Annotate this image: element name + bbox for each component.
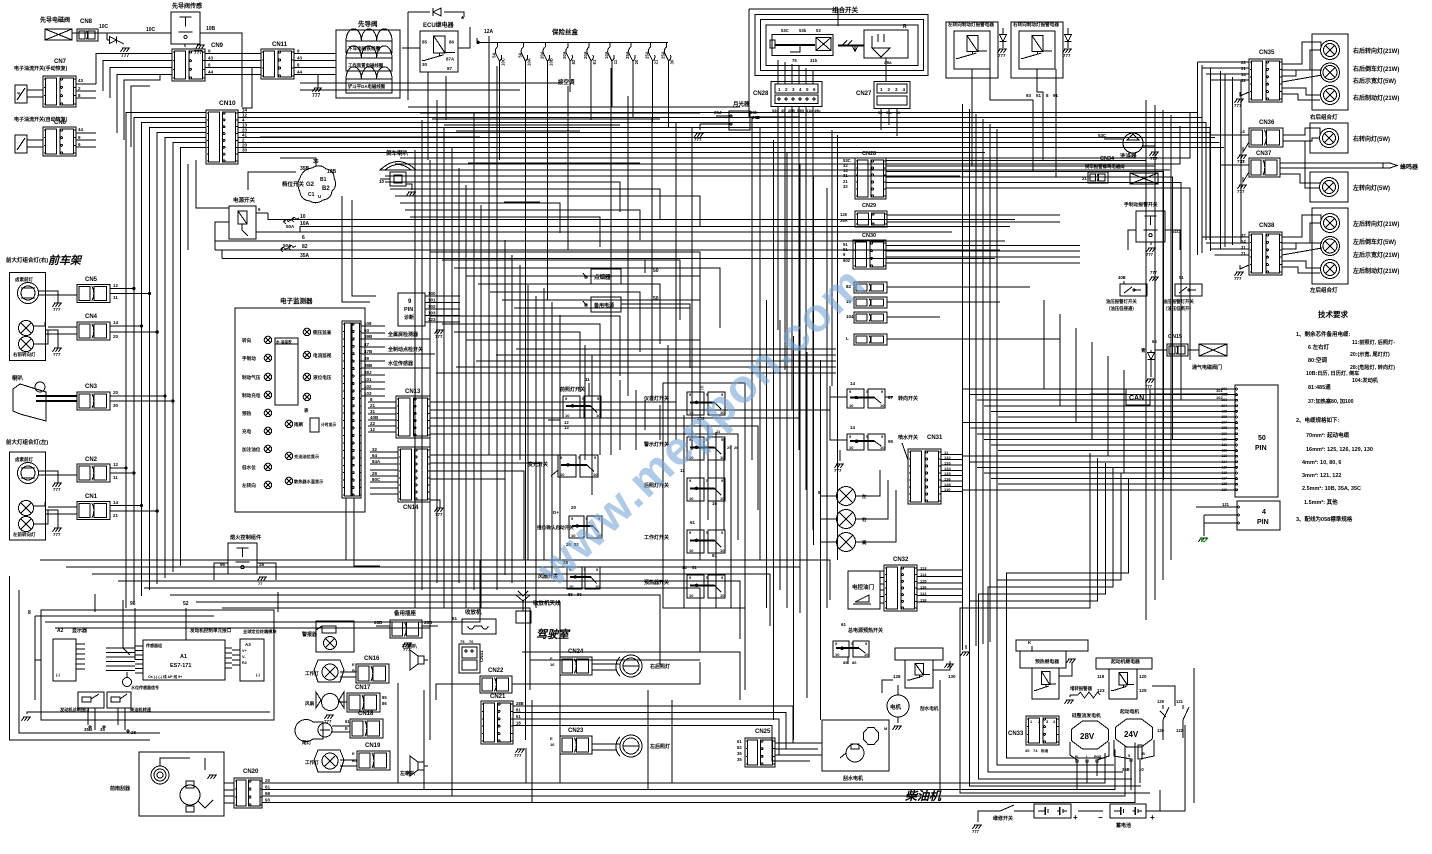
wire trunk v bbox=[584, 345, 586, 460]
kill control box bbox=[220, 533, 265, 574]
svg-text:82: 82 bbox=[737, 745, 742, 750]
connector CN30 bbox=[843, 233, 886, 269]
ground bbox=[53, 528, 63, 537]
svg-text:10: 10 bbox=[864, 652, 869, 657]
label headlamp right bbox=[6, 256, 48, 264]
svg-text:14: 14 bbox=[850, 381, 856, 386]
svg-text:C1: C1 bbox=[308, 192, 315, 198]
ground bbox=[403, 643, 413, 652]
label front frame bbox=[48, 254, 83, 267]
ECU relay bbox=[420, 21, 458, 72]
fuse 25A 21 bbox=[645, 42, 659, 66]
svg-text:前大灯组合灯(左): 前大灯组合灯(左) bbox=[6, 438, 48, 446]
wire trunk v bbox=[567, 92, 569, 250]
svg-text:8: 8 bbox=[28, 610, 31, 616]
A1 ECU box bbox=[135, 627, 232, 680]
svg-text:11: 11 bbox=[113, 475, 118, 480]
svg-text:35B: 35B bbox=[84, 727, 93, 732]
preheat switch bbox=[644, 565, 725, 598]
svg-text:左后转向灯(21W): 左后转向灯(21W) bbox=[1352, 220, 1399, 228]
wire fan 50pin bbox=[977, 399, 1228, 401]
wire fan 50pin bbox=[998, 450, 1228, 452]
wires CN36 bbox=[1283, 128, 1320, 141]
svg-text:10: 10 bbox=[849, 403, 854, 408]
svg-text:11:前照灯, 后照灯-: 11:前照灯, 后照灯- bbox=[1352, 338, 1395, 346]
svg-text:20: 20 bbox=[113, 390, 119, 395]
svg-text:75: 75 bbox=[460, 639, 465, 644]
wire h stair bbox=[420, 112, 700, 114]
wire vdrop bbox=[423, 690, 425, 790]
wire CN13 22 bbox=[368, 421, 396, 426]
svg-text:84A: 84A bbox=[372, 459, 381, 464]
connector CN41 bbox=[459, 639, 484, 673]
svg-text:CN4: CN4 bbox=[85, 314, 98, 320]
svg-text:11: 11 bbox=[613, 59, 618, 64]
parking brake switch bbox=[1124, 201, 1181, 250]
svg-text:16: 16 bbox=[550, 662, 555, 667]
svg-text:（油压低断开）: （油压低断开） bbox=[1163, 305, 1194, 312]
connector CN20 bbox=[234, 769, 262, 808]
svg-text:53b: 53b bbox=[799, 28, 807, 33]
ground bbox=[1234, 265, 1249, 281]
wire bbox=[886, 256, 1080, 258]
svg-text:%: % bbox=[17, 91, 21, 96]
svg-text:CN10: CN10 bbox=[219, 100, 236, 107]
service switch bbox=[972, 805, 1023, 834]
right horn bbox=[401, 643, 428, 670]
wire CN37 pin bbox=[1221, 164, 1250, 166]
ground bbox=[258, 577, 268, 586]
wire bbox=[248, 172, 296, 190]
rear cluster mid1 box bbox=[1310, 123, 1348, 153]
svg-text:108: 108 bbox=[364, 321, 372, 326]
wire trunk v bbox=[644, 400, 646, 430]
svg-text:工作灯: 工作灯 bbox=[305, 670, 319, 677]
svg-text:47: 47 bbox=[364, 342, 370, 347]
svg-text:93: 93 bbox=[364, 328, 370, 333]
label headlamp left bbox=[6, 438, 48, 446]
9PIN connector bbox=[398, 293, 425, 326]
wire tap 39 bbox=[361, 356, 385, 361]
wire trunk v bbox=[659, 405, 661, 440]
wire riser CN6 bbox=[117, 75, 172, 148]
connector CN25 bbox=[737, 729, 775, 767]
wire CN5-11 bbox=[110, 292, 150, 300]
svg-text:82: 82 bbox=[302, 244, 308, 250]
wire vdrop bbox=[531, 700, 533, 803]
ground bbox=[312, 88, 322, 99]
svg-text:20: 20 bbox=[265, 778, 271, 783]
wire bbox=[165, 138, 206, 579]
svg-text:起动电机: 起动电机 bbox=[1119, 708, 1139, 715]
svg-text:119: 119 bbox=[1097, 674, 1105, 679]
svg-text:喇叭: 喇叭 bbox=[12, 374, 24, 382]
wires time relay bbox=[700, 116, 800, 130]
wire h stair2 bbox=[385, 182, 620, 212]
wire vdrop bbox=[671, 700, 673, 783]
wire trunk v bbox=[473, 112, 475, 590]
wire CN14 84A bbox=[370, 459, 398, 464]
wire trunk v bbox=[551, 302, 553, 575]
svg-text:10: 10 bbox=[560, 472, 565, 477]
coil: bucket bbox=[346, 67, 392, 93]
svg-text:CAN: CAN bbox=[1129, 395, 1144, 402]
stall alarm bbox=[1065, 685, 1100, 704]
svg-text:52: 52 bbox=[183, 601, 189, 607]
wire corridor bbox=[1007, 478, 1129, 758]
wire term drop bbox=[1130, 761, 1132, 790]
svg-text:E: E bbox=[345, 726, 348, 731]
svg-text:40B: 40B bbox=[1118, 275, 1126, 280]
svg-text:6 左右灯: 6 左右灯 bbox=[1308, 343, 1330, 351]
svg-text:75: 75 bbox=[792, 58, 797, 63]
wire bbox=[173, 143, 206, 573]
wire 8 bbox=[28, 610, 35, 700]
wire bbox=[214, 563, 276, 580]
wire bbox=[280, 158, 316, 166]
svg-text:CN21: CN21 bbox=[490, 694, 506, 700]
wire tap 103 bbox=[361, 391, 385, 396]
svg-text:86: 86 bbox=[852, 660, 857, 665]
svg-text:125: 125 bbox=[1157, 699, 1165, 704]
svg-text:112: 112 bbox=[920, 591, 927, 596]
svg-text:123: 123 bbox=[428, 317, 436, 322]
svg-text:30: 30 bbox=[242, 148, 248, 153]
wire h sw8 bbox=[430, 471, 524, 560]
connector CN29 bbox=[840, 203, 887, 227]
svg-text:右后组合灯: 右后组合灯 bbox=[1310, 113, 1338, 121]
svg-text:前照灯开关: 前照灯开关 bbox=[560, 386, 585, 393]
wire fan 50pin bbox=[963, 455, 1228, 457]
svg-text:油压报警灯开关: 油压报警灯开关 bbox=[1106, 298, 1137, 305]
wires A1 A3 bbox=[232, 650, 240, 665]
turn switch bbox=[847, 381, 918, 408]
svg-text:诊断: 诊断 bbox=[404, 314, 414, 321]
halogen lamp bbox=[15, 276, 39, 304]
work lamp 1 bbox=[305, 660, 358, 682]
svg-text:777: 777 bbox=[53, 352, 61, 357]
wiper motor assy bbox=[822, 720, 889, 782]
wire bbox=[887, 338, 1060, 340]
svg-text:警报器: 警报器 bbox=[301, 631, 318, 638]
svg-text:11: 11 bbox=[585, 377, 590, 382]
fuse 10A 11 bbox=[604, 42, 618, 66]
svg-text:3mm²: 121, 122: 3mm²: 121, 122 bbox=[1302, 472, 1341, 479]
sensor label 1 bbox=[385, 331, 430, 339]
svg-text:倒车喇叭: 倒车喇叭 bbox=[385, 149, 409, 157]
wire right col bbox=[1201, 65, 1203, 253]
wire trunk v bbox=[610, 68, 612, 455]
wire CN3-30 bbox=[110, 400, 174, 408]
connector CN8 bbox=[77, 19, 109, 41]
svg-text:777: 777 bbox=[53, 487, 61, 492]
wire tap 108 bbox=[361, 321, 385, 326]
svg-text:电子监测器: 电子监测器 bbox=[280, 296, 313, 305]
rear light switch bbox=[644, 468, 725, 506]
svg-text:CN31: CN31 bbox=[927, 435, 943, 441]
svg-text:预热: 预热 bbox=[242, 410, 252, 417]
svg-text:102: 102 bbox=[364, 384, 372, 389]
wire h stairL bbox=[66, 567, 800, 613]
wires combo to CN28 bbox=[778, 60, 813, 84]
aux power bbox=[583, 296, 690, 312]
inline connector 10 bbox=[846, 297, 887, 308]
wire fan 50pin bbox=[970, 427, 1228, 429]
wire h mid bbox=[496, 354, 836, 356]
oil pressure switch 2 bbox=[1163, 275, 1202, 312]
svg-text:CN35: CN35 bbox=[1259, 50, 1275, 56]
combo nested loops bbox=[749, 9, 928, 118]
wire CN31 110 bbox=[941, 487, 963, 492]
wire bbox=[830, 386, 908, 461]
svg-text:左后组合灯: 左后组合灯 bbox=[1309, 286, 1338, 294]
wire right col bbox=[1209, 68, 1211, 251]
svg-text:18: 18 bbox=[516, 721, 521, 726]
wire CN2-11 bbox=[110, 472, 135, 480]
wire term drop bbox=[1076, 762, 1078, 790]
svg-text:CN1: CN1 bbox=[85, 494, 98, 500]
wire CN32 113 bbox=[917, 566, 962, 571]
svg-text:电子油流开关(手动恢复): 电子油流开关(手动恢复) bbox=[14, 65, 68, 72]
wire CN14 32 bbox=[370, 447, 398, 452]
oil pressure switch 1 bbox=[1106, 275, 1147, 312]
wire bbox=[985, 128, 1210, 241]
svg-text:126: 126 bbox=[1157, 728, 1165, 733]
headlamp housing left bbox=[9, 452, 45, 540]
wire h sw3 bbox=[430, 418, 800, 434]
connector CN4 bbox=[77, 314, 110, 340]
svg-text:43: 43 bbox=[297, 56, 303, 61]
svg-text:93: 93 bbox=[1026, 93, 1032, 98]
wire 4pin bbox=[1196, 507, 1230, 536]
wire CN32 118 bbox=[917, 598, 962, 603]
svg-text:5A: 5A bbox=[517, 52, 522, 57]
svg-text:53B: 53B bbox=[797, 109, 804, 113]
svg-text:技术要求: 技术要求 bbox=[1318, 309, 1348, 319]
svg-text:12A: 12A bbox=[484, 29, 494, 35]
wire h stair bbox=[480, 175, 600, 177]
svg-text:29: 29 bbox=[372, 471, 378, 476]
svg-text:左后制动灯(21W): 左后制动灯(21W) bbox=[1352, 267, 1399, 275]
wire bbox=[887, 214, 1060, 216]
wire h stair2 bbox=[395, 196, 700, 226]
wire bbox=[880, 583, 884, 585]
connector CN27 bbox=[856, 82, 910, 116]
wire bbox=[832, 130, 838, 560]
wire bbox=[880, 602, 884, 604]
cigarette lighter bbox=[583, 268, 700, 285]
connector CN19 bbox=[357, 743, 390, 770]
wire bbox=[985, 113, 1198, 241]
wire bbox=[880, 570, 884, 572]
svg-text:26J: 26J bbox=[714, 110, 722, 115]
lamp lr1 bbox=[1321, 237, 1340, 256]
connector CN13 bbox=[396, 389, 430, 438]
ground bbox=[1237, 172, 1249, 194]
svg-text:右后示宽灯(5W): 右后示宽灯(5W) bbox=[1352, 77, 1396, 85]
wire bbox=[985, 118, 1202, 241]
dimmer switch bbox=[528, 455, 598, 477]
wire CN14 80C bbox=[370, 477, 398, 482]
svg-text:130: 130 bbox=[948, 674, 956, 679]
svg-text:777: 777 bbox=[53, 532, 61, 537]
svg-text:低水位: 低水位 bbox=[241, 464, 256, 471]
svg-text:777: 777 bbox=[1063, 53, 1071, 58]
ground green bbox=[1199, 538, 1209, 542]
connector CN36 bbox=[1228, 120, 1283, 147]
svg-text:CN36: CN36 bbox=[1259, 120, 1275, 126]
svg-text:32: 32 bbox=[372, 447, 378, 452]
wire trunk v bbox=[627, 96, 629, 396]
wire h cstep bbox=[454, 268, 720, 328]
svg-text:16: 16 bbox=[712, 501, 718, 506]
monitor gauge bbox=[275, 338, 298, 405]
svg-text:总电源预热开关: 总电源预热开关 bbox=[848, 627, 883, 634]
svg-text:12: 12 bbox=[370, 427, 376, 432]
svg-text:37:加热塞80, 加100: 37:加热塞80, 加100 bbox=[1308, 397, 1354, 405]
wire CN38 pin bbox=[1206, 242, 1249, 244]
svg-text:CN33: CN33 bbox=[1008, 731, 1024, 737]
svg-text:136: 136 bbox=[944, 477, 951, 482]
wire h stairL bbox=[222, 608, 530, 690]
rear lamp R bbox=[616, 655, 670, 677]
svg-text:卤素前灯: 卤素前灯 bbox=[15, 276, 33, 283]
wire trunk v bbox=[480, 205, 482, 608]
svg-text:777: 777 bbox=[312, 93, 321, 99]
svg-text:R: R bbox=[903, 24, 907, 30]
alarm box bbox=[301, 621, 354, 652]
wire h stair bbox=[260, 136, 480, 138]
wire tap 93 bbox=[361, 328, 385, 333]
wire bbox=[886, 172, 1164, 481]
svg-text:61: 61 bbox=[737, 739, 742, 744]
wire CN21 81 bbox=[513, 708, 786, 750]
wire tap 102 bbox=[361, 384, 385, 389]
wire h cstep bbox=[430, 252, 700, 312]
svg-text:85: 85 bbox=[382, 695, 387, 700]
svg-text:CN3: CN3 bbox=[85, 384, 98, 390]
lamp rr2 bbox=[1321, 86, 1340, 105]
wire h stair bbox=[444, 124, 620, 126]
wires wiper-CN20 bbox=[224, 783, 234, 803]
wire trunk v bbox=[751, 118, 753, 460]
throttle box bbox=[848, 571, 880, 609]
monitor lamp r 377 bbox=[303, 373, 332, 381]
monitor lamp 制动充电 bbox=[242, 391, 272, 399]
washer pump bbox=[1098, 133, 1155, 160]
wire h low bbox=[35, 560, 480, 628]
solenoid valve (pilot) bbox=[40, 16, 72, 40]
lamp rr0 bbox=[1321, 41, 1340, 60]
svg-text:51: 51 bbox=[1036, 93, 1042, 98]
svg-text:刮水电机: 刮水电机 bbox=[920, 705, 939, 712]
wire bundle mid bbox=[786, 152, 788, 608]
wire fan 50pin bbox=[984, 405, 1228, 407]
wire fan 50pin bbox=[984, 438, 1228, 440]
svg-text:1.5mm²: 其他: 1.5mm²: 其他 bbox=[1304, 498, 1338, 506]
svg-text:28B: 28B bbox=[516, 701, 524, 706]
svg-text:128: 128 bbox=[893, 674, 901, 679]
svg-text:青: 青 bbox=[1141, 347, 1146, 354]
CAN box bbox=[1126, 389, 1150, 405]
svg-text:50: 50 bbox=[653, 268, 659, 274]
wire trunk v bbox=[451, 148, 453, 760]
wire bundle right bbox=[975, 114, 977, 646]
svg-text:61: 61 bbox=[841, 622, 847, 627]
diode bbox=[1000, 28, 1007, 48]
wire bbox=[887, 316, 940, 318]
svg-text:10: 10 bbox=[720, 593, 725, 598]
wire 82 bbox=[215, 244, 1000, 250]
wire CN31 11 bbox=[941, 450, 963, 455]
turn lamp L2 bbox=[13, 517, 36, 539]
svg-text:风扇: 风扇 bbox=[305, 700, 315, 707]
wire h stair2 bbox=[400, 203, 560, 233]
wire CN35 pin bbox=[1198, 61, 1249, 63]
bus wire 20 bbox=[238, 143, 985, 148]
wire bbox=[887, 221, 1060, 223]
svg-text:PIN: PIN bbox=[1255, 445, 1267, 452]
monitor lamp 手制动 bbox=[242, 354, 272, 362]
combo switch outer bbox=[766, 5, 918, 66]
wire CN32 112 bbox=[917, 591, 962, 596]
wire trunk v bbox=[559, 315, 561, 560]
svg-text:E: E bbox=[352, 662, 355, 667]
svg-text:档位开关: 档位开关 bbox=[281, 180, 305, 188]
wires lamps R bbox=[33, 291, 77, 348]
left horn bbox=[399, 756, 428, 777]
svg-text:10B: 10B bbox=[548, 58, 553, 66]
wire CN1-14 bbox=[110, 500, 143, 507]
wire bundle mid bbox=[819, 360, 821, 720]
svg-text:工作灯开关: 工作灯开关 bbox=[644, 534, 669, 541]
wire bbox=[886, 177, 1172, 440]
svg-text:U: U bbox=[318, 194, 321, 199]
connector CN37 bbox=[1228, 151, 1280, 177]
svg-text:61: 61 bbox=[452, 616, 458, 621]
ground bbox=[1063, 49, 1073, 58]
svg-text:777: 777 bbox=[435, 334, 443, 339]
wire trunk v bbox=[527, 285, 529, 560]
bus wire 12 bbox=[238, 113, 985, 118]
svg-text:传感器组: 传感器组 bbox=[145, 642, 162, 648]
wire vdrop bbox=[559, 675, 561, 783]
svg-text:10A: 10A bbox=[526, 58, 531, 66]
svg-text:散热器水温显示: 散热器水温显示 bbox=[294, 478, 324, 485]
wire bbox=[157, 133, 206, 585]
wire h cstep bbox=[514, 308, 690, 368]
wire h stair2 bbox=[405, 210, 640, 240]
wire bbox=[887, 286, 1030, 288]
ground bbox=[1234, 92, 1249, 108]
connector CN34 bbox=[1078, 156, 1158, 184]
svg-text:CN38: CN38 bbox=[1259, 223, 1275, 229]
indicator lamp a bbox=[818, 470, 880, 506]
fuse 25A 20 bbox=[625, 42, 639, 66]
wire bundle mid bbox=[806, 352, 808, 698]
wire CN31 132 bbox=[941, 455, 963, 460]
wire h cstep bbox=[442, 260, 680, 320]
bus wire 30 bbox=[238, 148, 985, 153]
svg-text:76: 76 bbox=[469, 639, 474, 644]
wire h cstep bbox=[478, 284, 660, 344]
connector CN31 bbox=[908, 435, 943, 504]
svg-text:驾驶室: 驾驶室 bbox=[536, 628, 571, 641]
svg-text:喷水开关: 喷水开关 bbox=[898, 434, 918, 441]
svg-text:2、电缆规格如下:: 2、电缆规格如下: bbox=[1296, 416, 1340, 424]
lamp ml bbox=[1320, 178, 1339, 197]
wire bbox=[886, 161, 1146, 561]
